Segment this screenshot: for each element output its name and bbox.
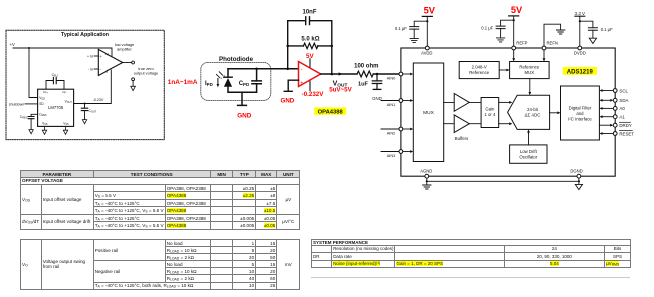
ADS1219 enclosure: [401, 48, 615, 176]
pin RESET: [599, 131, 634, 137]
svg-text:I²C Interface: I²C Interface: [568, 116, 592, 121]
svg-text:LM7705: LM7705: [48, 105, 64, 110]
svg-text:Digital Filter: Digital Filter: [569, 105, 592, 110]
svg-text:VSS: VSS: [42, 121, 48, 126]
power 5V op-amp: [306, 53, 314, 91]
label Buffers: [455, 136, 469, 141]
wire MUX to buffers: [444, 102, 455, 123]
capacitor 0.1uF at REFP: [481, 20, 513, 38]
resistor R2 100 ohm: [354, 64, 378, 77]
node +V: [10, 42, 15, 47]
svg-text:GND: GND: [237, 112, 252, 119]
spec table: system performance: [311, 239, 631, 268]
wire: op-amp output to R2: [321, 72, 357, 75]
svg-text:COUT: COUT: [89, 109, 97, 114]
svg-text:DRDY: DRDY: [619, 123, 632, 128]
pin A1: [599, 115, 625, 120]
capacitor C2 1uF: [358, 74, 382, 89]
block Low Drift Oscillator: [510, 145, 547, 163]
svg-text:+: +: [300, 80, 303, 86]
pin AGND: [420, 169, 432, 178]
svg-text:AIN3: AIN3: [387, 153, 396, 158]
svg-text:CFLY: CFLY: [52, 73, 59, 78]
svg-text:Reference: Reference: [519, 65, 539, 70]
block Gain 1 or 4: [481, 98, 499, 128]
wire: LM7705 VOUT to op-amp -V: [74, 70, 112, 104]
svg-text:Reference: Reference: [469, 70, 489, 75]
wire reference to refmux: [499, 69, 509, 72]
svg-text:-0.232V: -0.232V: [302, 91, 325, 98]
wire: +In stub: [87, 55, 98, 59]
svg-text:-V: -V: [105, 70, 109, 74]
block Digital Filter and I2C Interface: [561, 86, 600, 140]
svg-text:+ In: + In: [87, 55, 93, 59]
ground AGND: [423, 181, 431, 189]
photodiode D1: [216, 72, 232, 87]
svg-text:DGND: DGND: [570, 169, 582, 174]
svg-text:100 ohm: 100 ohm: [354, 64, 378, 70]
ground DGND: [575, 181, 582, 189]
svg-text:ΔΣ ADC: ΔΣ ADC: [525, 112, 541, 117]
ground REFP cap: [496, 38, 504, 42]
svg-text:AIN0: AIN0: [387, 75, 396, 80]
svg-text:0.1 μF: 0.1 μF: [601, 27, 613, 32]
svg-text:0.1 μF: 0.1 μF: [395, 26, 407, 31]
ground VSS1: [42, 126, 46, 134]
svg-text:0.1 μF: 0.1 μF: [481, 26, 493, 31]
power 5V at REFP: [509, 5, 523, 46]
svg-text:GND: GND: [281, 98, 295, 105]
svg-text:Low Drift: Low Drift: [520, 149, 538, 154]
block 24-bit delta-sigma ADC: [508, 95, 550, 129]
svg-text:AIN2: AIN2: [387, 130, 396, 135]
wire ground rail: [426, 178, 580, 182]
svg-text:MUX: MUX: [525, 70, 535, 75]
svg-text:output voltage: output voltage: [134, 70, 158, 75]
node VOUT: [329, 80, 352, 93]
svg-text:OPA4388: OPA4388: [318, 110, 344, 116]
pin AVDD: [421, 46, 432, 56]
capacitor 0.1uF at AVDD: [395, 21, 427, 38]
svg-text:SD: SD: [39, 102, 44, 106]
wire + ground at op-amp +input: [281, 80, 299, 104]
block 2.048-V Reference: [459, 62, 499, 79]
svg-text:SCL: SCL: [619, 88, 628, 93]
svg-text:and: and: [576, 111, 584, 116]
svg-text:MUX: MUX: [423, 110, 434, 116]
svg-text:Photodiode: Photodiode: [219, 56, 254, 63]
svg-text:-: -: [301, 67, 303, 73]
wire: photodiode loop: [228, 69, 257, 93]
label: Typical Application: [61, 32, 109, 38]
svg-text:IPD: IPD: [205, 81, 213, 87]
svg-text:CRES: CRES: [20, 115, 28, 120]
svg-text:A1: A1: [619, 115, 625, 120]
svg-text:3.3 V: 3.3 V: [575, 11, 585, 16]
svg-text:+: +: [99, 54, 102, 59]
buffer amp 1: [454, 94, 469, 112]
svg-text:5V: 5V: [424, 6, 436, 16]
wire: feedback loop: [286, 21, 333, 74]
svg-text:AIN1: AIN1: [387, 102, 396, 107]
pin AIN0: [387, 72, 414, 80]
ground COUT: [82, 120, 86, 124]
pin REFN: [542, 41, 558, 50]
svg-text:2.048-V: 2.048-V: [472, 65, 487, 70]
svg-text:REFN: REFN: [547, 41, 558, 46]
pin DVDD: [574, 46, 586, 56]
ground AVDD cap: [410, 38, 418, 42]
capacitor C1 10nF: [302, 9, 316, 24]
power 5V at AVDD: [422, 6, 435, 47]
ground DVDD cap: [589, 38, 596, 43]
svg-text:+V: +V: [10, 42, 15, 47]
pin AIN3: [381, 150, 413, 158]
wire gain to ADC: [499, 101, 513, 125]
svg-text:Gain: Gain: [485, 107, 495, 112]
svg-text:REFP: REFP: [516, 41, 527, 46]
wire: R2 to AIN0: [373, 73, 399, 76]
ground VSS2: [63, 126, 67, 134]
label ADS1219 highlighted: [563, 67, 597, 76]
pin DGND: [570, 169, 582, 178]
svg-text:1 or 4: 1 or 4: [484, 112, 496, 117]
svg-text:Buffers: Buffers: [455, 136, 469, 141]
svg-text:CRES: CRES: [39, 113, 47, 118]
ground C2: [372, 89, 382, 100]
wire ADC to digital filter: [550, 111, 561, 114]
svg-text:RESET: RESET: [619, 131, 634, 136]
label OPA4388 highlighted: [314, 107, 346, 115]
capacitor CFLY: [46, 73, 64, 89]
pin SCL: [599, 88, 628, 93]
svg-text:VSS: VSS: [63, 121, 69, 126]
wire refmux to ADC: [528, 79, 531, 96]
ground photodiode: [237, 92, 252, 119]
wire: -In stub: [88, 68, 99, 72]
block MUX: [413, 63, 443, 162]
photodiode enclosure: [201, 62, 271, 100]
svg-text:SDA: SDA: [619, 98, 628, 103]
svg-text:10nF: 10nF: [302, 9, 316, 15]
power -0.232V: [302, 91, 325, 98]
pin REFP: [512, 41, 528, 50]
output down arrow: [131, 78, 136, 91]
spec table: output swing: [20, 239, 300, 290]
svg-text:AVDD: AVDD: [421, 51, 432, 56]
svg-text:-0.23V: -0.23V: [93, 98, 104, 102]
footnote rule: [311, 276, 630, 279]
resistor R1 5.0 kohm: [301, 37, 319, 49]
op-amp U1 low voltage amplifier: [98, 49, 122, 75]
pin DRDY: [599, 122, 632, 128]
capacitor CPD: [239, 81, 262, 87]
label 1nA~1mA: [168, 79, 198, 86]
svg-text:VDD: VDD: [39, 96, 45, 101]
typical application enclosure: [6, 30, 164, 139]
pin AIN1: [381, 99, 413, 107]
svg-text:VOUT: VOUT: [65, 99, 73, 104]
spec table: offset voltage: [20, 170, 300, 229]
svg-text:CPD: CPD: [239, 81, 249, 87]
svg-text:ADS1219: ADS1219: [567, 70, 594, 76]
capacitor 0.1uF at DVDD: [580, 21, 613, 38]
buffer amp 2: [454, 115, 469, 133]
svg-text:24-bit: 24-bit: [527, 107, 539, 112]
op-amp U3 OPA4388: [299, 62, 321, 87]
svg-text:5V: 5V: [511, 5, 523, 15]
label shutdown + wire: [9, 102, 38, 106]
svg-text:A0: A0: [619, 106, 625, 111]
svg-text:+V: +V: [105, 53, 110, 57]
LM7705 U2: [38, 89, 74, 126]
wire: input net to op-amp: [228, 68, 299, 70]
svg-text:5uV~5V: 5uV~5V: [329, 86, 352, 93]
svg-text:AGND: AGND: [420, 169, 432, 174]
wire: +V rail: [13, 47, 112, 98]
label -0.23V: [93, 98, 104, 102]
power 3.3V at DVDD: [575, 11, 585, 46]
node: photodiode output junction: [255, 68, 258, 71]
wire oscillator to ADC: [527, 129, 530, 145]
svg-text:amplifier: amplifier: [117, 46, 132, 51]
label: true zero output voltage: [134, 66, 158, 75]
svg-text:shutdown: shutdown: [9, 102, 24, 106]
wire REFP into refmux: [512, 50, 515, 62]
capacitor COUT: [81, 103, 96, 120]
label IPD with arrow: [205, 79, 219, 88]
label: low voltage amplifier: [115, 42, 134, 52]
capacitor CRES: [20, 114, 38, 129]
wire REFN into refmux: [543, 50, 546, 62]
wire REFN to ground: [544, 24, 561, 46]
pin SDA: [599, 98, 628, 103]
svg-text:1uF: 1uF: [358, 81, 369, 87]
wire buffers to gain: [469, 102, 481, 123]
svg-text:1nA~1mA: 1nA~1mA: [168, 79, 198, 86]
svg-text:5.0 kΩ: 5.0 kΩ: [301, 37, 319, 43]
svg-text:GND: GND: [372, 96, 382, 101]
pin A0: [599, 106, 625, 111]
svg-text:Typical Application: Typical Application: [61, 32, 109, 38]
block Reference MUX: [510, 62, 549, 79]
label: Photodiode: [219, 56, 254, 63]
pin AIN2: [381, 127, 413, 135]
svg-text:Oscillator: Oscillator: [519, 154, 537, 159]
ground CRES: [29, 130, 33, 134]
svg-text:- In: - In: [88, 68, 94, 72]
ground REFN: [556, 30, 564, 34]
output terminal: [123, 61, 135, 64]
svg-text:DVDD: DVDD: [574, 51, 586, 56]
